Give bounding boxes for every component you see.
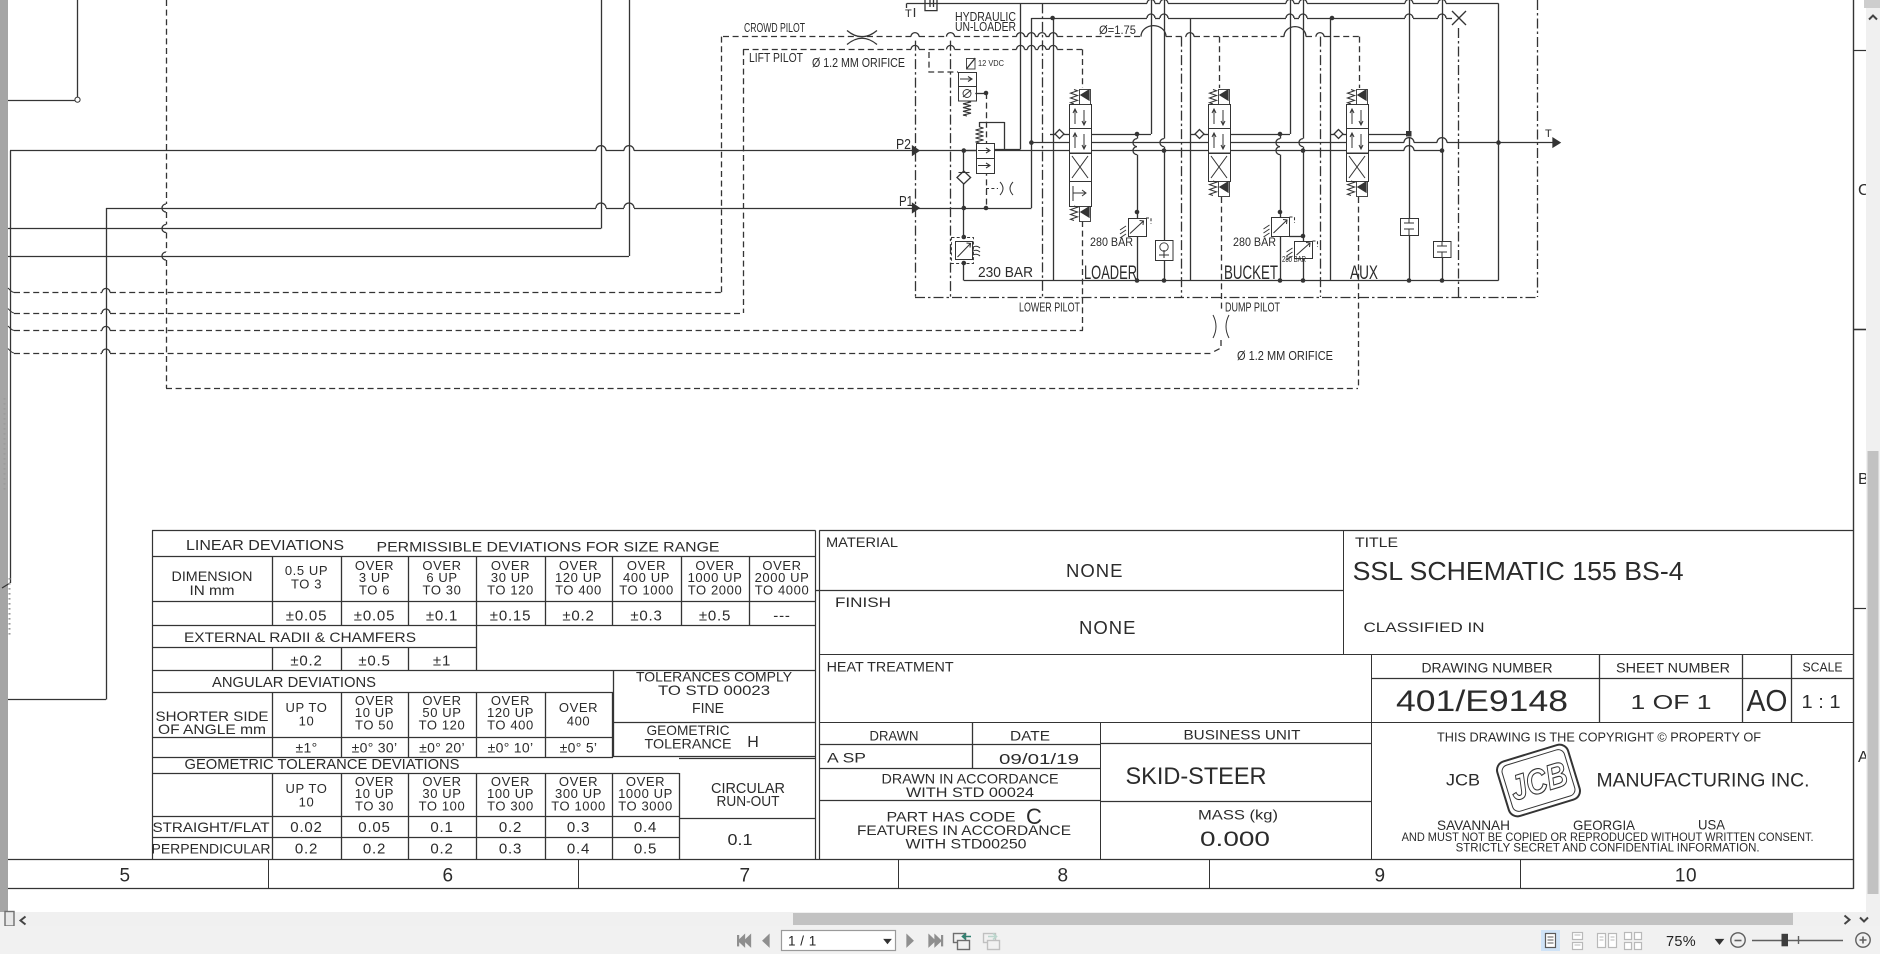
svg-text:75%: 75% [1666, 934, 1696, 950]
svg-text:10: 10 [299, 713, 315, 728]
wire: bucket port risers [1290, 0, 1292, 134]
plug X on line 2 [1452, 11, 1466, 25]
aux coupler A [1401, 219, 1419, 236]
wire: top-left L with port circle [8, 100, 75, 102]
svg-text:1 / 1: 1 / 1 [788, 934, 817, 949]
svg-text:GEORGIA: GEORGIA [1573, 817, 1636, 833]
svg-text:MANUFACTURING INC.: MANUFACTURING INC. [1597, 770, 1810, 792]
svg-text:TITLE: TITLE [1355, 535, 1398, 550]
scroll right arrow [1845, 916, 1850, 925]
svg-text:TOLERANCE: TOLERANCE [645, 736, 732, 752]
manifold boundary bottom (dash-dot) [915, 297, 1538, 299]
svg-text:SCALE: SCALE [1803, 660, 1843, 675]
hose cross symbol [847, 31, 877, 37]
svg-text:Ø=1.75: Ø=1.75 [1099, 25, 1136, 37]
svg-text:0.3: 0.3 [567, 819, 590, 836]
solenoid valve 12vdc [967, 59, 976, 70]
bucket A-port stub [1230, 134, 1290, 136]
svg-text:±0.5: ±0.5 [699, 608, 731, 625]
svg-text:WITH STD 00024: WITH STD 00024 [906, 784, 1034, 800]
svg-text:TO 6: TO 6 [359, 582, 390, 597]
scroll left arrow [21, 917, 26, 925]
wire: vertical x=601 [601, 0, 603, 229]
svg-text:TO 100: TO 100 [419, 798, 466, 813]
svg-text:±0° 5’: ±0° 5’ [560, 740, 598, 756]
left gray strip (viewer panel edge) [0, 0, 8, 926]
svg-text:10: 10 [1675, 866, 1697, 887]
pilot line: lift return (dashed row2) [14, 313, 102, 315]
svg-text:±0° 10’: ±0° 10’ [488, 740, 534, 756]
page layout icon continuous [1573, 933, 1583, 950]
pressure reducing valve [976, 127, 984, 143]
aux coupler B [1434, 242, 1452, 258]
bottom toolbar [0, 926, 1880, 954]
main relief valve 230bar [952, 238, 974, 264]
svg-text:TO 120: TO 120 [419, 717, 466, 732]
wire: section edge x=1190 [1190, 18, 1192, 281]
pilot riser aux bottom [1358, 197, 1360, 388]
svg-text:TO STD 00023: TO STD 00023 [658, 682, 770, 698]
svg-text:0.05: 0.05 [358, 819, 390, 836]
svg-text:NONE: NONE [1066, 560, 1123, 581]
loader shuttle [1156, 241, 1174, 261]
reservoir at top [925, 0, 937, 11]
svg-text:±0.1: ±0.1 [426, 608, 458, 625]
wire: aux port risers [1409, 0, 1411, 131]
svg-text:TO 4000: TO 4000 [755, 582, 810, 597]
loader A-port stub [1091, 134, 1151, 136]
vertical scrollbar down arrow [1860, 918, 1868, 922]
svg-text:0.1: 0.1 [728, 832, 753, 849]
svg-text:TO 300: TO 300 [487, 798, 534, 813]
valve bucket V2 top actuator [1210, 90, 1217, 105]
vertical scrollbar thumb [1868, 451, 1879, 894]
vertical scrollbar track [1866, 0, 1880, 926]
svg-text:DUMP PILOT: DUMP PILOT [1225, 301, 1280, 315]
svg-text:STRAIGHT/FLAT: STRAIGHT/FLAT [153, 819, 270, 835]
wire: vertical to T line right [1498, 3, 1500, 142]
svg-text:TO 1000: TO 1000 [619, 582, 674, 597]
svg-text:±0° 30’: ±0° 30’ [352, 740, 398, 756]
svg-text:7: 7 [739, 866, 750, 887]
nav prev button [763, 935, 769, 946]
svg-text:Ø 1.2 MM ORIFICE: Ø 1.2 MM ORIFICE [812, 56, 905, 70]
svg-text:TO 3000: TO 3000 [618, 798, 673, 813]
svg-text:12 VDC: 12 VDC [978, 58, 1004, 68]
svg-text:MASS (kg): MASS (kg) [1198, 807, 1278, 823]
pilot box bottom (dashed) [166, 388, 1358, 390]
svg-text:TO 30: TO 30 [355, 798, 394, 813]
svg-text:TO 1000: TO 1000 [551, 798, 606, 813]
pilot riser lower [1082, 221, 1084, 330]
svg-text:TO 400: TO 400 [555, 582, 602, 597]
nav next button [907, 935, 913, 946]
page perforation dots [4, 398, 6, 492]
svg-text:FINISH: FINISH [835, 595, 891, 610]
page number box [782, 931, 896, 951]
svg-text:MATERIAL: MATERIAL [826, 535, 899, 550]
svg-text:0.02: 0.02 [290, 819, 322, 836]
valve aux V3 top actuator [1348, 90, 1355, 105]
svg-text:0.4: 0.4 [567, 841, 590, 858]
svg-text:BUCKET: BUCKET [1224, 263, 1278, 284]
svg-text:P1: P1 [899, 193, 913, 210]
svg-text:H: H [747, 734, 759, 751]
sheet bottom border / zone row [8, 859, 1853, 861]
loader relief 280bar [1137, 134, 1139, 139]
svg-text:JCB: JCB [1446, 771, 1480, 790]
svg-text:CLASSIFIED IN: CLASSIFIED IN [1364, 619, 1485, 635]
zone tick C/B [1853, 50, 1866, 52]
svg-text:0.5: 0.5 [634, 841, 657, 858]
svg-text:TO 30: TO 30 [423, 582, 462, 597]
aux inlet check [1334, 130, 1343, 139]
zoom dropdown caret [1716, 940, 1723, 945]
bucket inlet check [1195, 130, 1204, 139]
svg-text:1 OF 1: 1 OF 1 [1631, 692, 1712, 714]
svg-text:USA: USA [1698, 817, 1726, 833]
svg-text:PERPENDICULAR: PERPENDICULAR [152, 841, 271, 857]
svg-text:9: 9 [1374, 866, 1385, 887]
svg-text:DATE: DATE [1010, 728, 1050, 744]
svg-text:0.2: 0.2 [363, 841, 386, 858]
wire: left return line A [8, 228, 601, 230]
scroll corner box [5, 912, 14, 927]
svg-text:DRAWING NUMBER: DRAWING NUMBER [1422, 660, 1553, 676]
horizontal scrollbar thumb [793, 913, 1793, 925]
bucket relief 1 [1280, 134, 1282, 139]
orifice symbol unloader [1000, 182, 1003, 195]
pilot drop to bucket valve [1219, 37, 1221, 88]
vertical scrollbar up arrow [1869, 16, 1877, 20]
manifold boundary x=1320 (dash-dot) [1320, 37, 1322, 297]
svg-text:±0.15: ±0.15 [490, 608, 531, 625]
valve bucket V2 bottom actuator [1210, 181, 1217, 196]
svg-text:TO 120: TO 120 [487, 582, 534, 597]
manifold boundary x=1042 (dash-dot) [1042, 3, 1044, 297]
svg-text:0.2: 0.2 [499, 819, 522, 836]
wire: section edge x=1053 [1053, 18, 1055, 281]
svg-text:0.4: 0.4 [634, 819, 657, 836]
valve aux V3 bottom actuator [1348, 181, 1355, 196]
pilot riser lift [743, 49, 745, 313]
manifold boundary left (dash-dot) [915, 41, 917, 297]
svg-text:0.1: 0.1 [430, 819, 453, 836]
bucket relief 2 [1290, 236, 1304, 238]
svg-text:BUSINESS UNIT: BUSINESS UNIT [1184, 727, 1301, 743]
svg-text:PERMISSIBLE DEVIATIONS FOR SIZ: PERMISSIBLE DEVIATIONS FOR SIZE RANGE [377, 539, 720, 555]
svg-text:A SP: A SP [827, 750, 866, 766]
nav last-page button [929, 935, 935, 946]
svg-text:LOADER: LOADER [1084, 263, 1137, 284]
svg-text:---: --- [773, 608, 790, 625]
sheet right border [1853, 0, 1855, 889]
svg-text:SKID-STEER: SKID-STEER [1126, 763, 1267, 790]
previous view icon [954, 934, 970, 950]
tolerance table frame [152, 530, 816, 532]
svg-text:RUN-OUT: RUN-OUT [717, 794, 780, 810]
svg-text:THIS DRAWING IS THE COPYRIGHT: THIS DRAWING IS THE COPYRIGHT © PROPERTY… [1437, 731, 1761, 745]
page layout icon two-up continuous [1625, 933, 1642, 950]
svg-text:DRAWN: DRAWN [870, 728, 919, 744]
pilot drop to aux valve [1359, 37, 1361, 88]
horizontal scrollbar track [0, 912, 1880, 926]
svg-text:SHEET NUMBER: SHEET NUMBER [1616, 660, 1730, 676]
svg-text:SSL SCHEMATIC 155 BS-4: SSL SCHEMATIC 155 BS-4 [1353, 556, 1684, 586]
svg-text:FINE: FINE [692, 700, 724, 717]
svg-text:5: 5 [119, 866, 130, 887]
svg-text:0.2: 0.2 [430, 841, 453, 858]
pilot drop to loader valve [1082, 49, 1084, 88]
valve loader V1 body [1070, 105, 1092, 130]
svg-text:±0.05: ±0.05 [286, 608, 327, 625]
svg-text:0.2: 0.2 [295, 841, 318, 858]
svg-text:T: T [1545, 128, 1552, 140]
pilot line: crowd (dashed) [723, 36, 911, 38]
svg-text:8: 8 [1057, 866, 1068, 887]
manifold boundary unloader (dash-dot) [950, 41, 952, 297]
wire: tank drop right [1498, 143, 1500, 281]
svg-text:TO 2000: TO 2000 [688, 582, 743, 597]
manifold boundary right (dash-dot) [1537, 0, 1539, 297]
pilot line: lift (dashed) [743, 49, 911, 51]
svg-text:LOWER PILOT: LOWER PILOT [1019, 301, 1080, 315]
svg-text:T: T [905, 8, 912, 20]
next view icon (disabled) [984, 934, 1000, 950]
nav first-page button [739, 935, 745, 946]
wire: top bus line 2 [1031, 18, 1147, 20]
svg-text:SAVANNAH: SAVANNAH [1437, 817, 1510, 833]
wire: vertical from line2 to T [1031, 18, 1033, 208]
svg-text:HEAT TREATMENT: HEAT TREATMENT [827, 660, 954, 675]
check valve unloader [963, 151, 965, 171]
svg-text:TO 3: TO 3 [291, 576, 322, 591]
valve loader V1 bottom actuator [1071, 206, 1078, 221]
svg-text:280 BAR: 280 BAR [1090, 235, 1133, 249]
pilot riser crowd [721, 37, 723, 293]
wire: P1 feed riser [106, 208, 108, 700]
svg-text:6: 6 [442, 866, 453, 887]
pilot riser dump with orifice [1221, 197, 1223, 311]
pilot dash from solenoid [929, 52, 958, 72]
wire: vertical from line1 to P1 [1020, 3, 1022, 149]
svg-text:1 : 1: 1 : 1 [1802, 692, 1841, 712]
svg-text:0.3: 0.3 [499, 841, 522, 858]
svg-text:GEOMETRIC TOLERANCE DEVIATIONS: GEOMETRIC TOLERANCE DEVIATIONS [185, 757, 460, 773]
svg-text:Ø 1.2 MM ORIFICE: Ø 1.2 MM ORIFICE [1237, 349, 1333, 363]
svg-text:UN-LOADER: UN-LOADER [955, 20, 1016, 34]
svg-text:ANGULAR DEVIATIONS: ANGULAR DEVIATIONS [212, 675, 376, 691]
wire: vertical x=629 [629, 0, 631, 256]
wire: left edge riser [10, 151, 12, 583]
svg-text:±0.05: ±0.05 [354, 608, 395, 625]
svg-text:0.000: 0.000 [1200, 828, 1270, 851]
svg-text:±0° 20’: ±0° 20’ [419, 740, 465, 756]
wire: top bus line 1 [907, 3, 1147, 5]
svg-text:STRICTLY SECRET AND CONFIDENTI: STRICTLY SECRET AND CONFIDENTIAL INFORMA… [1456, 843, 1760, 855]
valve bucket V2 body [1209, 105, 1231, 130]
svg-text:10: 10 [299, 794, 315, 809]
valve loader V1 top actuator [1071, 90, 1078, 105]
svg-text:EXTERNAL RADII & CHAMFERS: EXTERNAL RADII & CHAMFERS [184, 629, 416, 645]
svg-text:OF ANGLE mm: OF ANGLE mm [158, 721, 266, 737]
svg-text:LIFT PILOT: LIFT PILOT [749, 51, 803, 65]
svg-text:CROWD PILOT: CROWD PILOT [744, 21, 805, 35]
svg-text:IN mm: IN mm [190, 582, 235, 598]
aux A-port stub [1368, 134, 1406, 136]
manifold boundary x=1458 (dash-dot) [1458, 28, 1460, 297]
svg-text:230 BAR: 230 BAR [978, 264, 1033, 281]
svg-text:±1: ±1 [433, 653, 451, 670]
wire: valve block bottom [964, 280, 1499, 282]
wire: loader port risers [1151, 0, 1153, 134]
svg-text:LINEAR DEVIATIONS: LINEAR DEVIATIONS [186, 538, 344, 554]
svg-text:±1°: ±1° [296, 740, 318, 756]
tolerances comply box [613, 671, 615, 757]
zoom out button [1731, 933, 1745, 947]
svg-text:±0.2: ±0.2 [562, 608, 594, 625]
svg-text:400: 400 [567, 713, 591, 728]
wire: section edge x=1330 [1330, 18, 1332, 281]
svg-text:TO 400: TO 400 [487, 717, 534, 732]
pilot riser left x=166 [166, 0, 168, 204]
loader inlet check [1055, 130, 1064, 139]
manifold boundary x=1181 (dash-dot) [1181, 37, 1183, 297]
title block frame [819, 530, 821, 859]
zoom in button [1856, 933, 1870, 947]
svg-text:280 BAR: 280 BAR [1282, 255, 1306, 264]
svg-text:±0.3: ±0.3 [630, 608, 662, 625]
svg-text:±0.5: ±0.5 [358, 653, 390, 670]
page layout icon two-up [1598, 934, 1617, 948]
svg-text:NONE: NONE [1079, 617, 1136, 638]
svg-text:401/E9148: 401/E9148 [1396, 685, 1568, 718]
svg-text:TO 50: TO 50 [355, 717, 394, 732]
page layout icon single (selected) [1541, 930, 1560, 951]
svg-text:WITH STD00250: WITH STD00250 [906, 836, 1027, 852]
svg-text:280 BAR: 280 BAR [1233, 235, 1276, 249]
svg-text:09/01/19: 09/01/19 [999, 751, 1079, 768]
svg-text:AO: AO [1747, 683, 1788, 718]
JCB logo [1495, 742, 1582, 818]
valve aux V3 body [1347, 105, 1369, 130]
pilot line: crowd return (dashed row1) [14, 292, 102, 294]
svg-text:±0.2: ±0.2 [290, 653, 322, 670]
svg-text:AUX: AUX [1350, 263, 1378, 284]
wire: left return line B [8, 256, 629, 258]
zoom slider [1752, 940, 1843, 942]
